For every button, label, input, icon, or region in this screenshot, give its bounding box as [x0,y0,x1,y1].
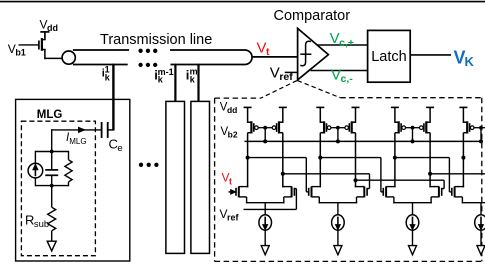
pmos load left (slice 1) [248,121,266,133]
wire to ground (slice 1) [264,230,266,246]
pmos load left (slice 2) [320,121,338,133]
wire slice 3 right output to slice 4 right gate [430,174,485,189]
wire tail coupling (slice 1) [246,203,285,216]
wire slice 1 left output to slice 2 left gate [248,158,309,192]
svg-text:Latch: Latch [371,49,406,65]
callout dashed line (left) [261,81,297,99]
node left output tap (slice 4) [461,156,465,160]
pmos load right (slice 4) [481,121,485,133]
wire slice 3 left output to slice 4 left gate [395,158,452,192]
wire left drain (slice 1) [247,133,249,188]
wire Q1 drain to transmission line [44,57,64,59]
wire tail coupling (slice 2) [319,203,358,216]
current source I1 (MLG) [28,151,43,186]
ground (slice 1) [261,246,269,255]
wire to ground (slice 4) [480,230,482,246]
pmos load left (slice 3) [395,121,413,133]
V_b2 rail [245,140,482,142]
nmos input left (slice 3) [383,186,395,203]
nmos input left (slice 4) [452,186,464,203]
node right output tap (slice 3) [428,172,432,176]
nmos input right (slice 1) [282,186,294,203]
wire right drain (slice 1) [282,133,284,188]
V_ref wire to first cell [244,189,297,210]
node V_b1 [8,42,39,58]
current source tail (slice 1) [259,215,272,230]
wire i_k^m tap [197,64,199,102]
node bottom of MLG model [35,184,68,188]
node top of MLG model [35,150,68,154]
node left output tap (slice 2) [318,156,322,160]
latch U2 [368,30,411,82]
V_t input arrow wire [229,190,236,194]
nmos input left (slice 2) [309,186,321,203]
node V_t (red) at line output [257,39,271,58]
node right output tap (slice 1) [281,172,285,176]
pmos load right (slice 2) [338,121,356,133]
nmos input left (slice 1) [236,186,248,203]
transistor Q1 [39,38,46,59]
pmos load right (slice 3) [413,121,431,133]
wire R_sub to ground [51,231,53,241]
svg-text:Comparator: Comparator [274,8,351,24]
resistor R_sub [48,207,56,231]
node right output tap (slice 2) [354,178,358,182]
wire tail coupling (slice 4) [462,203,485,216]
top border line [0,1,485,3]
ground (MLG) [47,241,56,251]
wire left drain (slice 4) [462,133,464,188]
wire slice 2 left output to slice 3 left gate [320,158,383,192]
transmission line top conductor (right segment) with rounded end [170,50,252,65]
MLG dashed model box [21,121,95,256]
power V_dd (bias) [40,17,59,39]
wire slice 1 right output to slice 2 right gate [283,174,370,189]
node left output tap (slice 3) [393,156,397,160]
nmos input right (slice 2) [355,186,367,203]
pmos gate junction to V_b2 (slice 4) [479,126,483,144]
capacitor C1 (MLG model) [45,152,58,187]
ground (slice 4) [477,246,485,255]
wire to ground (slice 3) [412,230,414,246]
ground (slice 2) [334,246,342,255]
wire right drain (slice 3) [429,133,431,188]
transmission line bottom conductor (left segment) [73,64,128,66]
pmos load left (slice 4) [463,121,481,133]
ellipsis between MLG and bars [139,163,159,167]
current source tail (slice 2) [332,215,345,230]
current source tail (slice 3) [406,215,419,230]
wire latch output [410,54,451,56]
pmos load right (slice 1) [265,121,283,133]
power V_dd tap left (slice 4) [459,107,467,123]
power V_dd tap left (slice 2) [316,107,324,123]
power V_dd tap right (slice 1) [279,107,287,123]
transmission line ellipsis dots (upper row) [138,49,157,53]
power V_dd tap right (slice 2) [352,107,360,123]
wire slice 2 right output to slice 3 right gate [356,180,445,188]
power V_dd tap left (slice 1) [244,107,252,123]
pmos gate junction to V_b2 (slice 1) [263,126,267,144]
wire transmission line to comparator input [252,56,298,58]
wire left drain (slice 3) [394,133,396,188]
op-amp comparator U1 [298,28,329,80]
cell block m (bar) [191,101,210,253]
comparator detail dashed box [215,98,482,262]
node V_ref (comparator input) [270,64,298,83]
transmission line top conductor (left segment) [73,49,129,51]
MLG outer box [16,99,130,261]
wire right drain (slice 2) [355,133,357,188]
node left output tap (slice 1) [246,156,250,160]
pmos gate junction to V_b2 (slice 2) [336,126,340,144]
transmission line ellipsis dots (lower row) [138,63,157,67]
current arrow I_MLG [79,127,85,132]
nmos input right (slice 3) [429,186,441,203]
pmos gate junction to V_b2 (slice 3) [411,126,415,144]
svg-text:Transmission line: Transmission line [100,32,212,48]
power V_dd tap left (slice 3) [391,107,399,123]
transmission line left end circle [62,51,75,64]
wire to R_sub [51,186,53,208]
svg-text:MLG: MLG [37,109,63,121]
wire i_k^m-1 tap [174,64,176,102]
callout dashed line (right) [298,81,341,98]
resistor R1 (MLG model) [65,151,72,186]
wire V_c,+ output [318,44,368,46]
wire V_c,- output [311,70,369,72]
wire left drain (slice 2) [319,133,321,188]
wire tail coupling (slice 3) [393,203,432,216]
power V_dd tap right (slice 3) [426,107,434,123]
ground (slice 3) [409,246,417,255]
wire I_MLG branch [51,129,102,152]
wire i_k^1 tap [112,64,114,130]
cell block m-1 (bar) [166,101,185,253]
wire to ground (slice 2) [337,230,339,246]
current source tail (slice 4) [475,215,485,230]
capacitor C_e [102,122,115,138]
